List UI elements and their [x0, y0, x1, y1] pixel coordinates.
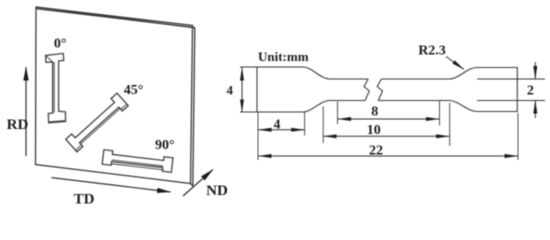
svg-text:90°: 90°	[155, 138, 175, 153]
svg-text:10: 10	[367, 123, 381, 138]
svg-text:8: 8	[371, 105, 378, 120]
svg-text:45°: 45°	[124, 83, 144, 98]
svg-text:22: 22	[369, 143, 383, 158]
svg-text:R2.3: R2.3	[418, 44, 446, 59]
svg-text:ND: ND	[206, 183, 228, 199]
svg-text:TD: TD	[74, 192, 95, 208]
svg-text:4: 4	[226, 83, 233, 98]
svg-text:0°: 0°	[54, 36, 67, 51]
svg-text:4: 4	[274, 117, 281, 132]
svg-text:RD: RD	[7, 117, 29, 133]
svg-text:2: 2	[527, 84, 534, 99]
svg-text:Unit:mm: Unit:mm	[258, 49, 309, 64]
